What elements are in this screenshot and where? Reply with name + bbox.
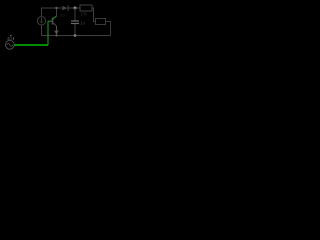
svg-text:1u: 1u xyxy=(80,21,86,26)
capacitor C1 top lead xyxy=(74,8,76,21)
node cap top junction dot xyxy=(74,7,77,10)
wire collector vertical xyxy=(56,8,58,16)
node emitter junction dot xyxy=(55,34,57,36)
wire top rail diode to R1 xyxy=(69,7,80,9)
capacitor C1 top plate xyxy=(71,20,79,22)
wire source bottom lead xyxy=(41,25,43,35)
capacitor C1 bottom lead xyxy=(74,24,76,35)
capacitor C1 bottom plate xyxy=(71,23,79,25)
wire top rail left segment xyxy=(41,7,62,9)
wire green vertical input xyxy=(47,21,49,45)
svg-text:.65: .65 xyxy=(59,13,65,18)
transistor Q1 collector diagonal xyxy=(53,18,55,20)
wire top-left vertical (source top lead) xyxy=(41,8,43,17)
wire top-right corner xyxy=(92,8,96,22)
wire R2 to right corner xyxy=(106,22,111,36)
node collector junction dot xyxy=(55,7,57,9)
transistor Q1 emitter diagonal xyxy=(53,23,57,27)
AC source V1 label text xyxy=(10,35,12,37)
svg-text:10k: 10k xyxy=(80,12,88,17)
resistor R2 box xyxy=(96,19,106,25)
current source I1 xyxy=(37,17,45,25)
node cap bottom junction dot xyxy=(74,34,77,37)
wire bottom rail xyxy=(41,35,111,37)
diode D1 triangle xyxy=(62,6,67,11)
wire base green xyxy=(48,20,52,22)
wire emitter vertical xyxy=(56,26,58,35)
wire green horizontal input xyxy=(14,44,48,46)
resistor R1 box xyxy=(80,5,92,11)
transistor Q1 base bar xyxy=(52,18,54,25)
transistor Q1 emitter arrow xyxy=(54,31,58,36)
diode D1 cathode bar xyxy=(67,6,69,11)
svg-text:40: 40 xyxy=(7,36,12,41)
AC source V1 sine squiggle xyxy=(7,43,13,46)
AC source V1 circle xyxy=(5,40,14,49)
